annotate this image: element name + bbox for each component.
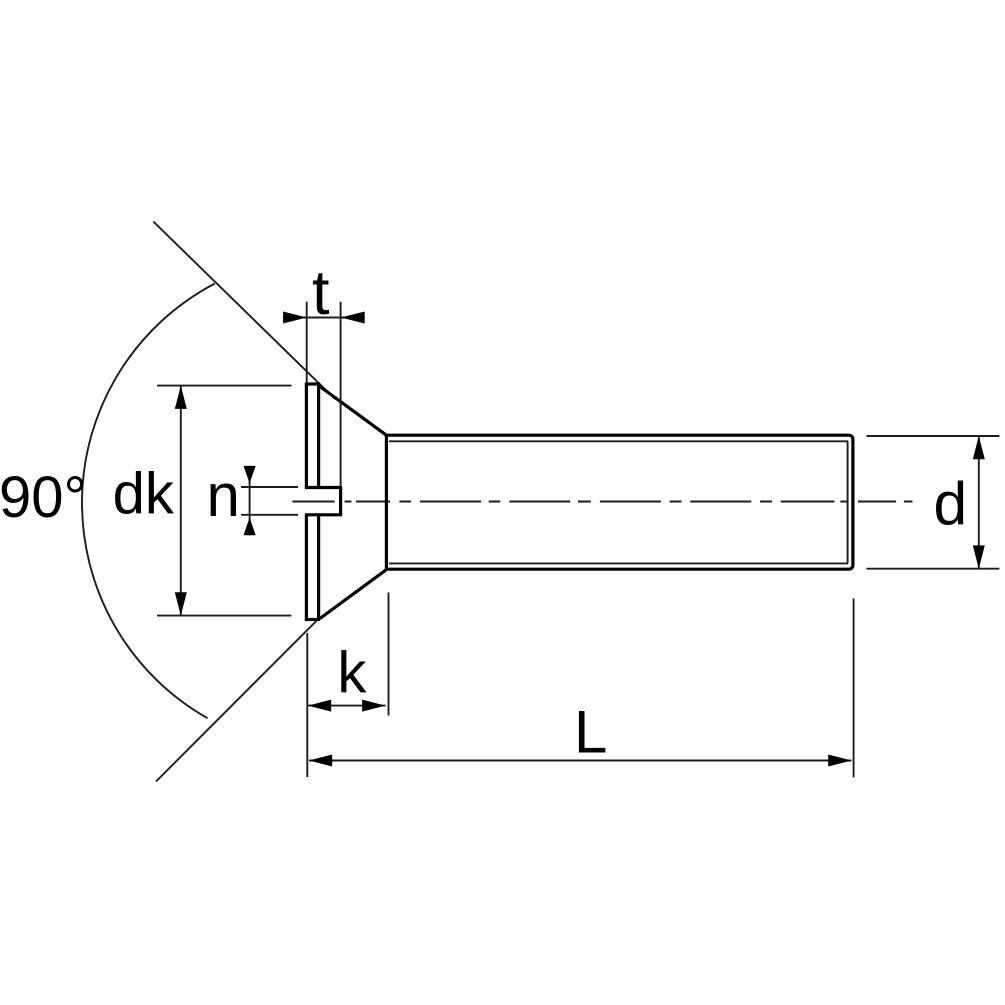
svg-text:90°: 90° xyxy=(0,465,87,530)
svg-text:dk: dk xyxy=(113,462,175,527)
svg-text:n: n xyxy=(207,462,240,529)
svg-text:L: L xyxy=(574,699,607,766)
svg-text:d: d xyxy=(934,469,968,537)
svg-text:k: k xyxy=(337,640,367,705)
svg-text:t: t xyxy=(312,258,330,328)
